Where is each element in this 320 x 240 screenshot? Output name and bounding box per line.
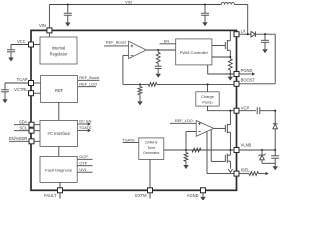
resistor R3 (FB upper)	[148, 83, 156, 87]
net label VIN	[125, 0, 132, 4]
wire zener to cap bottom	[262, 162, 275, 164]
svg-text:VLNB: VLNB	[241, 143, 252, 148]
wire tone to VLNB net	[163, 149, 165, 151]
svg-text:REF_LDO: REF_LDO	[79, 82, 97, 87]
wire BOOST to charge pump	[207, 84, 209, 91]
capacitor C6 (boost output)	[261, 34, 269, 53]
svg-text:Fault Diagnose: Fault Diagnose	[45, 168, 73, 173]
svg-text:VCC: VCC	[17, 39, 26, 44]
capacitor C3 (VCC bypass)	[7, 45, 29, 62]
wire TCAP to REF	[34, 82, 41, 84]
block U2 REF	[41, 76, 78, 103]
inductor L1	[221, 2, 234, 4]
block U6 PWM Controller	[176, 39, 212, 65]
wire tone to EXTM	[149, 160, 151, 189]
wire VIN pin to internal regulator	[48, 33, 50, 37]
pin BOOST	[234, 78, 255, 87]
svg-text:REF_Boost: REF_Boost	[79, 75, 100, 80]
svg-text:TGATE: TGATE	[122, 137, 135, 142]
svg-text:ISEL: ISEL	[241, 167, 251, 172]
op-amp U8 LNB regulator amp	[196, 121, 214, 137]
svg-text:Pump: Pump	[202, 99, 212, 104]
svg-text:REF_Boost: REF_Boost	[106, 40, 127, 45]
transistor Q1 boost FET	[225, 31, 230, 59]
wire BOOST external	[239, 83, 275, 85]
svg-text:REF: REF	[55, 88, 64, 93]
signal TGATE in	[122, 137, 139, 142]
block U4 Fault Diagnose	[40, 156, 77, 182]
pin VIN	[39, 23, 52, 33]
transistor Q3 discharge FET	[225, 150, 230, 169]
svg-text:LX: LX	[241, 28, 246, 33]
wire SCL to I2C	[34, 130, 40, 132]
svg-text:EXTM: EXTM	[135, 193, 147, 198]
net stub UVL	[77, 167, 92, 172]
resistor R7 (ISEL)	[239, 172, 259, 176]
wire EA feedback	[123, 55, 129, 84]
pin ISEL	[234, 167, 250, 176]
svg-text:OTP: OTP	[79, 161, 87, 166]
svg-text:OCP: OCP	[79, 154, 88, 159]
capacitor C1 (VIN input cap)	[64, 3, 72, 26]
transistor Q2 LNB pass FET	[225, 111, 230, 150]
svg-text:BOOST: BOOST	[241, 78, 256, 83]
ground (sense)	[228, 74, 233, 81]
signal TGATE out	[78, 125, 92, 132]
resistor R1 (comp)	[156, 50, 160, 64]
wire EA output	[146, 49, 176, 51]
svg-text:Regulator: Regulator	[50, 51, 68, 56]
svg-text:I²C Interface: I²C Interface	[48, 131, 71, 136]
wire PWM to PGND	[208, 65, 234, 74]
svg-text:REF_LDO: REF_LDO	[175, 118, 193, 123]
svg-text:EN/ADDR: EN/ADDR	[9, 136, 27, 141]
svg-text:UVL: UVL	[79, 167, 87, 172]
svg-text:TGATE: TGATE	[79, 125, 92, 130]
wire SDA to I2C	[34, 124, 40, 126]
wire boost output to BOOST pin	[274, 34, 276, 84]
svg-text:VCP: VCP	[241, 106, 250, 111]
net stub OTP	[77, 161, 92, 166]
block U7 Charge Pump	[196, 92, 219, 106]
net label REF_LDO (LDO input)	[170, 118, 196, 123]
wire VIN top rail	[49, 5, 221, 29]
svg-text:Tone: Tone	[147, 146, 155, 150]
capacitor C8 (VLNB output)	[271, 150, 279, 163]
svg-text:AGND: AGND	[187, 193, 199, 198]
wire VLNB external	[239, 149, 276, 151]
svg-text:VIN: VIN	[125, 0, 132, 4]
capacitor C5 (comp)	[155, 64, 162, 69]
wire Fault to FAULT pin	[59, 182, 61, 188]
pin VLNB	[234, 143, 252, 153]
signal ISEL arrow	[259, 172, 269, 176]
svg-text:Generator: Generator	[143, 151, 160, 155]
resistor R4 (FB lower)	[138, 84, 142, 94]
pin EN/ADDR	[9, 136, 34, 144]
pin PGND	[234, 68, 252, 77]
svg-text:SDA: SDA	[19, 119, 28, 124]
svg-text:PGND: PGND	[241, 68, 253, 73]
op-amp U5 boost error amp	[129, 41, 147, 58]
svg-text:EN: EN	[164, 38, 170, 43]
wire I2C to Fault	[58, 146, 60, 156]
wire inductor to LX	[234, 5, 247, 35]
block U3 I2C Interface	[40, 120, 78, 146]
pin AGND	[187, 188, 206, 198]
svg-text:I2C EN: I2C EN	[79, 119, 92, 124]
svg-text:224kHz: 224kHz	[145, 141, 158, 145]
pin SCL	[14, 126, 34, 134]
wire charge pump to VCP	[208, 106, 235, 112]
pin VCC	[17, 39, 34, 47]
wire FB node	[123, 83, 148, 85]
capacitor C7 (VCP pump cap)	[239, 107, 276, 114]
signal EN	[160, 38, 176, 44]
wire VCC to regulator	[34, 44, 41, 46]
ground (FB)	[137, 95, 142, 106]
pin LX	[234, 28, 246, 36]
svg-text:TCAP: TCAP	[17, 77, 28, 82]
pin SDA	[14, 119, 34, 127]
svg-text:FAULT: FAULT	[44, 193, 57, 198]
wire VLNB internal	[164, 149, 234, 151]
wire LX to diode	[239, 33, 251, 35]
ground (AGND)	[200, 193, 205, 201]
net stub REF_LDO	[78, 82, 98, 87]
wire LDO output	[214, 127, 226, 129]
wire PWM current sense	[212, 56, 231, 58]
signal I2C EN	[78, 119, 92, 126]
net label REF_Boost (EA input)	[104, 40, 129, 46]
ground (LDO fb)	[183, 161, 188, 169]
net stub OCP	[77, 154, 92, 159]
svg-text:PWM Controller: PWM Controller	[180, 50, 209, 55]
capacitor C2 (boost input cap)	[201, 3, 209, 26]
resistor R5 (LDO fb to VLNB)	[192, 148, 201, 152]
resistor R2 (sense)	[228, 59, 232, 70]
pin EXTM	[135, 188, 152, 199]
block U1 Internal Regulator	[40, 37, 77, 64]
block U9 Tone Generator	[139, 138, 164, 160]
wire Q3 gate	[211, 130, 225, 162]
wire REF to I2C	[58, 102, 60, 120]
svg-text:SCL: SCL	[19, 126, 28, 131]
diode D1 (boost rectifier)	[251, 31, 255, 37]
capacitor C4 (TCAP)	[1, 83, 28, 103]
wire FB to BOOST pin	[157, 83, 234, 85]
resistor R6 (LDO fb to gnd)	[184, 150, 188, 161]
wire diode to output node	[255, 33, 275, 35]
current sink arrow Q3	[228, 169, 232, 172]
pin VCTRL	[14, 87, 33, 96]
IC boundary	[31, 30, 237, 190]
wire gate drive M1	[212, 45, 225, 47]
svg-text:VIN: VIN	[39, 23, 46, 28]
diode D2 (pump diode)	[273, 111, 278, 150]
pin VCP	[234, 106, 249, 114]
wire ISEL to amp	[207, 132, 234, 174]
svg-text:Internal: Internal	[52, 45, 66, 50]
diode D3 (zener clamp)	[259, 150, 266, 163]
net stub REF_Boost	[78, 75, 101, 80]
pin TCAP	[17, 77, 34, 86]
ground (VLNB cap)	[273, 163, 278, 170]
ground (comp)	[156, 68, 161, 77]
wire LDO feedback	[186, 132, 196, 151]
wire sense to PGND	[229, 70, 231, 75]
signal PGND arrow	[239, 72, 255, 76]
wire VCTRL to REF	[34, 92, 41, 94]
pin FAULT	[44, 188, 62, 199]
svg-text:VCTRL: VCTRL	[14, 87, 28, 92]
wire EN/ADDR to I2C	[34, 140, 40, 142]
